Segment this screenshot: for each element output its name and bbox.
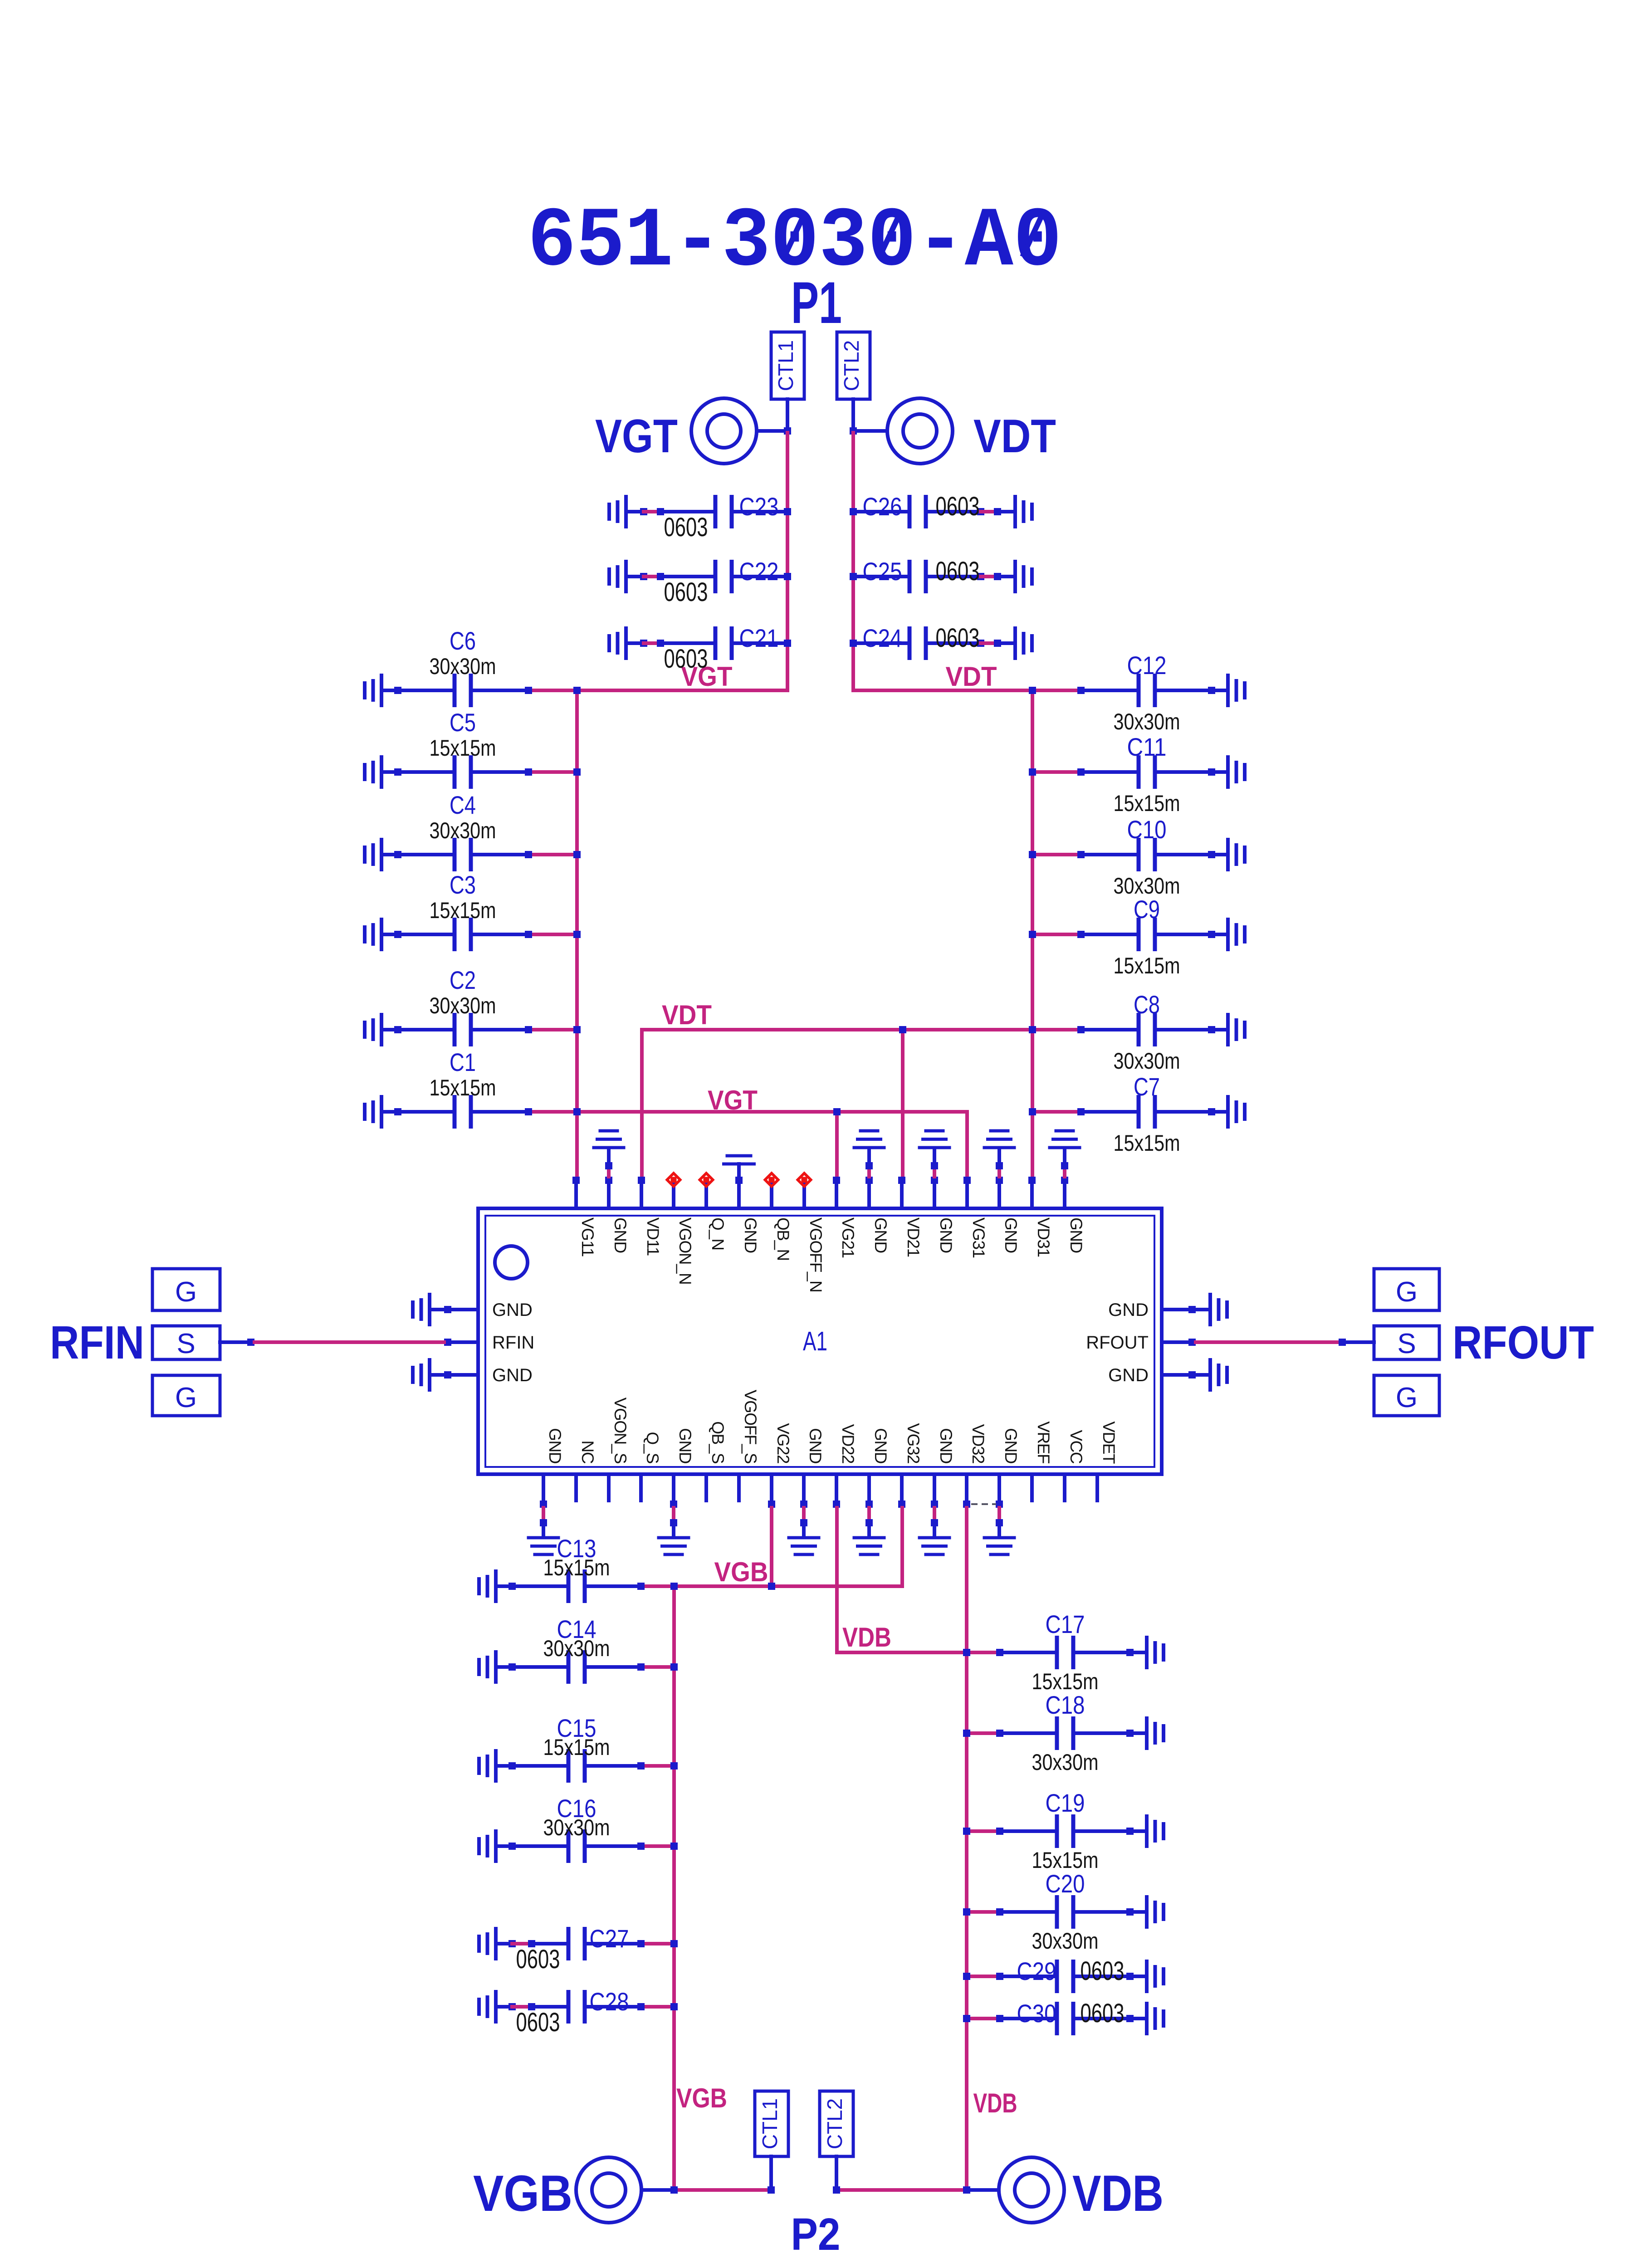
ground [657,1508,690,1556]
svg-text:0603: 0603 [664,644,708,674]
wire from bus [963,1730,1000,1737]
no-connect marker [700,1173,713,1187]
svg-text:30x30m: 30x30m [430,993,496,1018]
svg-text:QB_S: QB_S [709,1421,727,1463]
svg-text:0603: 0603 [516,1945,560,1974]
svg-text:30x30m: 30x30m [1114,1048,1180,1074]
svg-text:VDET: VDET [1100,1421,1118,1464]
pin Q_N (top 5) [706,1184,727,1250]
svg-text:C2: C2 [450,966,476,994]
svg-text:GND: GND [1108,1365,1149,1385]
pin GND (left) [444,1365,533,1385]
svg-text:GND: GND [1002,1428,1020,1463]
ground [1226,838,1247,871]
capacitor C7 (15x15m) [1077,1072,1228,1156]
pin GND (top 2) [605,1177,630,1253]
pin GND (top 6) [735,1177,760,1253]
svg-text:G: G [1396,1276,1418,1308]
svg-text:C19: C19 [1046,1789,1085,1817]
ground [1196,1358,1229,1392]
pin GND (bottom 1) [540,1428,564,1508]
svg-text:VGT: VGT [595,410,678,463]
svg-text:VGB: VGB [676,2083,727,2113]
wire from bus [1029,768,1081,776]
svg-text:CTL1: CTL1 [758,2098,782,2149]
wire to bus [637,2003,678,2010]
svg-text:RFIN: RFIN [50,1316,144,1369]
ground [363,674,383,707]
ground [1013,495,1034,528]
svg-text:S: S [176,1328,195,1359]
capacitor C15 (15x15m) [496,1714,645,1783]
pin VG11 (top 1) [572,1177,597,1256]
capacitor C12 (30x30m) [1077,651,1228,734]
wire VDT row to VD11/VD21 [642,1026,1036,1178]
ground [363,755,383,789]
pin GND (top 12) [931,1177,955,1253]
tie marker [971,1503,996,1505]
pin VD32 (bottom 14) [963,1424,988,1508]
no-connect marker [667,1173,680,1187]
svg-text:0603: 0603 [1081,1999,1125,2028]
pad S [152,1326,220,1359]
svg-text:C21: C21 [739,624,779,652]
wire from bus [1029,1108,1081,1115]
svg-text:C28: C28 [590,1987,629,2016]
svg-text:GND: GND [937,1428,955,1463]
ground [477,1650,498,1684]
svg-text:VGOFF_S: VGOFF_S [741,1390,760,1463]
IC A1 body [478,1208,1162,1474]
svg-text:VGON_N: VGON_N [676,1217,694,1284]
svg-text:RFIN: RFIN [492,1333,534,1353]
pin GND (top 14) [996,1177,1020,1253]
wire to bus [637,1663,678,1671]
pin VCC (bottom 17) [1065,1430,1085,1501]
svg-text:C7: C7 [1134,1072,1160,1101]
capacitor C25 (0603) [854,557,1015,593]
ground [1145,1960,1165,1993]
svg-text:15x15m: 15x15m [1114,953,1180,978]
pin GND (left) [444,1300,533,1320]
capacitor C3 (15x15m) [381,870,532,951]
wire from bus [963,1828,1000,1835]
ground [1145,1636,1165,1669]
ground [1226,918,1247,951]
ground [477,1569,498,1603]
pad G [1374,1269,1439,1310]
svg-text:C26: C26 [863,492,902,521]
pin VGON_S (bottom 3) [609,1398,630,1501]
svg-text:VD32: VD32 [969,1424,988,1463]
wire VGT bus down to pin VG11 [573,687,581,1178]
pin GND (bottom 5) [670,1428,694,1508]
pin VGON_N (top 4) [674,1184,694,1284]
svg-text:VG22: VG22 [774,1423,792,1463]
svg-text:VG11: VG11 [578,1217,597,1256]
ground [1226,674,1247,707]
wire to bus [525,687,581,694]
svg-text:0603: 0603 [1081,1956,1125,1986]
capacitor C21 (0603) [626,624,787,674]
svg-text:VD22: VD22 [839,1424,857,1463]
svg-text:30x30m: 30x30m [543,1636,610,1661]
ground [411,1358,444,1392]
svg-text:P1: P1 [791,269,842,336]
wire to bus [525,768,581,776]
svg-text:VGT: VGT [708,1085,758,1115]
pin GND (bottom 13) [931,1428,955,1508]
svg-text:VGON_S: VGON_S [611,1398,630,1463]
pin VD11 (top 3) [638,1177,662,1256]
svg-text:GND: GND [937,1217,955,1253]
ground [722,1154,756,1177]
capacitor C13 (15x15m) [496,1534,645,1603]
svg-text:G: G [175,1276,197,1308]
pin VDET (bottom 18) [1097,1421,1118,1501]
ground [1013,626,1034,660]
svg-text:VDB: VDB [1072,2165,1164,2222]
wire from bus [1029,851,1081,858]
ground [477,1749,498,1783]
pin GND (right) [1108,1365,1196,1385]
svg-text:QB_N: QB_N [774,1217,792,1261]
ground [411,1293,444,1326]
svg-text:VDT: VDT [662,1000,712,1030]
pin VREF (bottom 16) [1032,1421,1053,1501]
wire right VDT bus down to pin VD31 [1029,687,1036,1178]
svg-text:15x15m: 15x15m [430,1075,496,1100]
svg-text:C8: C8 [1134,990,1160,1019]
svg-text:C10: C10 [1127,815,1167,844]
connector P1 pin CTL2 [837,332,870,399]
pin VGOFF_S (bottom 7) [739,1390,760,1501]
svg-text:VDT: VDT [946,661,997,692]
svg-text:VDT: VDT [973,410,1056,463]
wire to bus [525,851,581,858]
svg-text:CTL2: CTL2 [823,2098,846,2149]
svg-text:C27: C27 [590,1924,629,1953]
ground [787,1508,821,1556]
ground [363,918,383,951]
svg-text:0603: 0603 [936,623,980,653]
ground [918,1129,951,1177]
capacitor C6 (30x30m) [381,626,532,707]
svg-text:VREF: VREF [1034,1421,1053,1464]
pin NC (bottom 2) [576,1441,597,1501]
pin GND (right) [1108,1300,1196,1320]
svg-text:15x15m: 15x15m [543,1555,610,1580]
pin RFOUT (right) [1086,1333,1196,1353]
svg-text:30x30m: 30x30m [1114,709,1180,734]
no-connect marker [798,1173,811,1187]
wire to bus [637,1843,678,1850]
svg-text:VG32: VG32 [904,1423,923,1463]
ground [1048,1129,1081,1177]
svg-text:P2: P2 [791,2209,841,2260]
svg-text:GND: GND [492,1365,533,1385]
wire to bus [637,1762,678,1769]
capacitor C5 (15x15m) [381,708,532,789]
pin GND (bottom 15) [996,1428,1020,1508]
capacitor C4 (30x30m) [381,791,532,871]
pin QB_S (bottom 6) [706,1421,727,1501]
svg-text:GND: GND [1067,1217,1085,1253]
wire VDB row: VD22 to C17 [837,1508,967,1652]
svg-text:C11: C11 [1127,733,1167,761]
pin VD22 (bottom 10) [833,1424,857,1508]
pin VG21 (top 9) [833,1177,857,1258]
capacitor C19 (15x15m) [996,1789,1147,1873]
svg-text:VGOFF_N: VGOFF_N [807,1217,825,1292]
wire VGT net: CTL1 down and left to bus [577,433,791,690]
capacitor C1 (15x15m) [381,1048,532,1129]
ground [1226,1013,1247,1046]
wire to bus [525,1108,581,1115]
wire from bus [963,2015,1000,2022]
svg-text:GND: GND [676,1428,694,1463]
connector P2 pin CTL1 [755,2091,788,2156]
ground [1145,1716,1165,1750]
svg-text:A1: A1 [803,1326,827,1356]
pin GND (bottom 9) [800,1428,825,1508]
pin GND (top 10) [865,1177,890,1253]
ground [592,1129,626,1177]
ground [607,560,628,593]
capacitor C30 (0603) [996,1999,1147,2035]
svg-text:C22: C22 [739,557,779,586]
svg-text:VG21: VG21 [839,1217,857,1258]
svg-text:15x15m: 15x15m [430,898,496,923]
wire to bus [637,1583,678,1590]
pin Q_S (bottom 4) [641,1432,662,1501]
svg-text:GND: GND [871,1217,890,1253]
svg-text:30x30m: 30x30m [543,1815,610,1840]
wire to bus [525,931,581,938]
svg-text:GND: GND [871,1428,890,1463]
wire VGB bus down [670,1583,678,2190]
pad G [152,1375,220,1416]
svg-text:0603: 0603 [664,513,708,542]
connector P1 pin CTL1 [771,332,804,399]
svg-text:CTL2: CTL2 [840,340,863,391]
capacitor C9 (15x15m) [1077,895,1228,978]
svg-text:30x30m: 30x30m [1032,1928,1099,1954]
svg-text:30x30m: 30x30m [1032,1750,1099,1775]
capacitor C17 (15x15m) [996,1610,1147,1694]
svg-text:CTL1: CTL1 [774,340,797,391]
wire CTL2 to VDB [833,2156,999,2194]
svg-text:0603: 0603 [664,577,708,607]
pin RFIN (left) [444,1333,534,1353]
svg-text:15x15m: 15x15m [1114,1130,1180,1156]
ground [983,1508,1016,1556]
ground [853,1508,886,1556]
capacitor C8 (30x30m) [1077,990,1228,1074]
wire VDB bus down [963,1508,970,2190]
svg-text:Q_S: Q_S [643,1432,662,1463]
pin GND (top 16) [1061,1177,1085,1253]
ground [1226,755,1247,789]
connector VDT [887,398,953,464]
ground [527,1508,560,1556]
svg-text:GND: GND [806,1428,825,1463]
svg-text:VCC: VCC [1067,1430,1085,1463]
svg-text:RFOUT: RFOUT [1452,1316,1594,1369]
svg-text:VG31: VG31 [969,1217,988,1258]
ground [853,1129,886,1177]
svg-text:C3: C3 [450,870,476,899]
pin QB_N (top 7) [772,1184,792,1261]
svg-text:Q_N: Q_N [709,1217,727,1250]
svg-text:VD21: VD21 [904,1217,923,1257]
ground [607,626,628,660]
wire from bus [1029,931,1081,938]
svg-text:VD31: VD31 [1034,1217,1053,1257]
svg-text:VGB: VGB [473,2165,572,2222]
capacitor C14 (30x30m) [496,1615,645,1684]
svg-text:C17: C17 [1046,1610,1085,1638]
svg-text:30x30m: 30x30m [430,818,496,843]
pad G [1374,1375,1439,1416]
ground [1226,1095,1247,1129]
svg-text:15x15m: 15x15m [543,1735,610,1760]
wire VGB to CTL1 [641,2156,775,2194]
connector VGT [691,398,757,464]
capacitor C10 (30x30m) [1077,815,1228,899]
ground [607,495,628,528]
ground [918,1508,951,1556]
capacitor C22 (0603) [626,557,787,607]
ground [1145,1814,1165,1848]
capacitor C20 (30x30m) [996,1869,1147,1954]
capacitor C2 (30x30m) [381,966,532,1046]
pin VGOFF_N (top 8) [804,1184,825,1292]
svg-text:30x30m: 30x30m [430,654,496,679]
svg-text:C6: C6 [450,626,476,655]
ground [477,1927,498,1960]
svg-text:VDB: VDB [973,2088,1017,2118]
ground [363,1095,383,1129]
ground [477,1829,498,1863]
svg-text:15x15m: 15x15m [1114,791,1180,816]
svg-text:GND: GND [1002,1217,1020,1253]
pad G [152,1269,220,1310]
svg-text:C29: C29 [1017,1957,1056,1985]
wire VGB row: C13 to VG22/VG32 [641,1508,902,1590]
pin VG32 (bottom 12) [898,1423,923,1508]
svg-text:C4: C4 [450,791,476,819]
ground [363,1013,383,1046]
svg-text:G: G [175,1382,197,1413]
ground [477,1990,498,2024]
pin VD21 (top 11) [898,1177,923,1257]
svg-text:RFOUT: RFOUT [1086,1333,1149,1353]
svg-text:C25: C25 [863,557,902,586]
wire CTL2 to node [850,399,887,435]
svg-text:C9: C9 [1134,895,1160,924]
ground [1013,560,1034,593]
capacitor C23 (0603) [626,492,787,542]
svg-text:S: S [1397,1328,1416,1359]
ground [1145,2002,1165,2035]
svg-text:C1: C1 [450,1048,476,1076]
capacitor C26 (0603) [854,492,1015,528]
pin VD31 (top 15) [1028,1177,1053,1257]
svg-text:GND: GND [611,1217,630,1253]
svg-text:GND: GND [546,1428,564,1463]
svg-text:0603: 0603 [516,2008,560,2037]
pad S [1374,1326,1439,1359]
wire from bus [1029,1026,1081,1033]
title 651-3030-A0 [528,194,1062,290]
wire from bus [963,1973,1000,1980]
svg-text:VDB: VDB [842,1622,891,1652]
svg-text:GND: GND [741,1217,760,1253]
ground [363,838,383,871]
wire to bus [637,1940,678,1947]
svg-text:C20: C20 [1046,1869,1085,1898]
ground [1145,1895,1165,1929]
ground [983,1129,1016,1177]
wire VGT row to VG21/VG31 [573,1108,967,1178]
svg-text:C12: C12 [1127,651,1167,679]
wire RFOUT net [1196,1339,1374,1346]
pin VG22 (bottom 8) [768,1423,792,1508]
svg-text:GND: GND [492,1300,533,1320]
svg-text:VGB: VGB [714,1557,768,1587]
svg-text:C5: C5 [450,708,476,737]
svg-text:0603: 0603 [936,492,980,521]
svg-text:0603: 0603 [936,557,980,586]
ground [1196,1293,1229,1326]
capacitor C29 (0603) [996,1956,1147,1993]
wire RFIN net [220,1339,444,1346]
wire from bus [963,1649,1000,1656]
wire CTL1 to node [757,399,791,435]
capacitor C27 (0603) [496,1924,645,1974]
pin VG31 (top 13) [963,1177,988,1258]
svg-text:G: G [1396,1382,1418,1413]
svg-text:C18: C18 [1046,1691,1085,1719]
wire from bus [1029,687,1081,694]
no-connect marker [765,1173,778,1187]
svg-text:C24: C24 [863,624,902,652]
connector P2 pin CTL2 [820,2091,853,2156]
wire to bus [525,1026,581,1033]
connector VGB [576,2157,641,2223]
connector VDB [999,2157,1064,2223]
capacitor C11 (15x15m) [1077,733,1228,816]
svg-text:NC: NC [578,1441,597,1464]
svg-text:VD11: VD11 [644,1217,662,1256]
svg-text:C23: C23 [739,492,779,521]
capacitor C16 (30x30m) [496,1794,645,1863]
wire from bus [963,1908,1000,1916]
wire VDT net: CTL2 down and right to bus [850,433,1032,690]
capacitor C28 (0603) [496,1987,645,2037]
svg-text:GND: GND [1108,1300,1149,1320]
svg-text:C30: C30 [1017,1999,1056,2028]
capacitor C18 (30x30m) [996,1691,1147,1775]
capacitor C24 (0603) [854,623,1015,660]
pin GND (bottom 11) [865,1428,890,1508]
svg-text:15x15m: 15x15m [430,735,496,761]
